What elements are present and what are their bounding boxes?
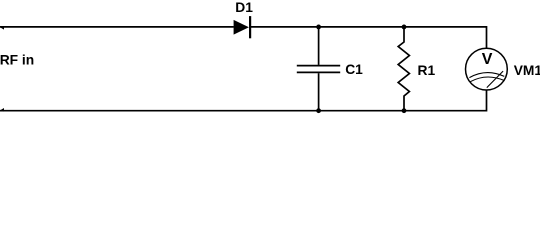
wire bottom rail: [0, 90, 487, 111]
node junction R1 top: [402, 25, 407, 30]
svg-text:VM1: VM1: [514, 63, 540, 78]
svg-text:V: V: [482, 51, 493, 68]
svg-text:R1: R1: [418, 63, 436, 78]
terminal arrow top-left: [0, 26, 4, 30]
wire top rail right (diode cathode to voltmeter corner): [250, 27, 487, 49]
wire top rail left (RF in to diode anode): [0, 26, 234, 28]
capacitor C1: [297, 27, 340, 111]
voltmeter VM1 body: [466, 48, 508, 90]
voltmeter scale arc lower: [470, 77, 504, 82]
svg-text:RF in: RF in: [0, 52, 34, 67]
node junction C1 bottom: [316, 108, 321, 113]
voltmeter scale arc upper: [469, 73, 504, 78]
svg-text:D1: D1: [235, 0, 253, 15]
resistor R1: [398, 27, 409, 111]
diode D1: [234, 16, 251, 38]
voltmeter needle: [487, 71, 503, 88]
terminal arrow bottom-left: [0, 108, 4, 112]
node junction C1 top: [316, 25, 321, 30]
node junction R1 bottom: [402, 108, 407, 113]
svg-text:C1: C1: [345, 62, 363, 77]
